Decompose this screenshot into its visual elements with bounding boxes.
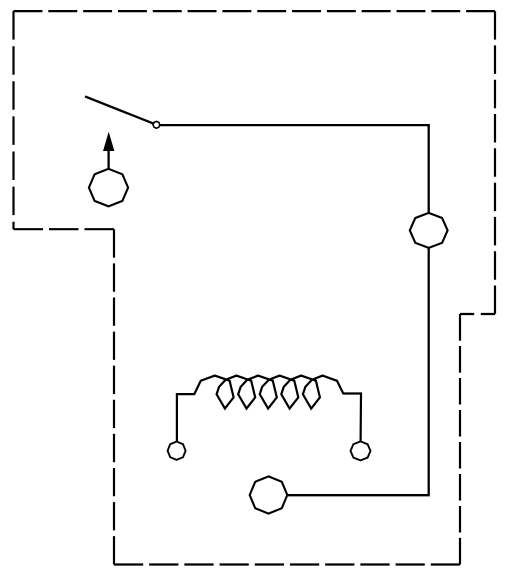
flow arrow (upward) [103, 132, 114, 169]
switch S1 hinge node [153, 121, 160, 128]
node N2 (right coil terminal octagon) [351, 441, 371, 460]
terminal T2 (bottom-centre octagon) [250, 476, 288, 513]
terminal T3 (top-left octagon) [89, 169, 128, 207]
terminal T1 (top-right octagon) [410, 213, 448, 248]
switch S1 blade [85, 96, 153, 123]
inductor L1 winding [177, 376, 361, 442]
wire: T1 down to bottom junction [287, 248, 428, 495]
node N1 (left coil terminal octagon) [168, 442, 186, 460]
wire: switch to top-right corner [160, 125, 429, 214]
